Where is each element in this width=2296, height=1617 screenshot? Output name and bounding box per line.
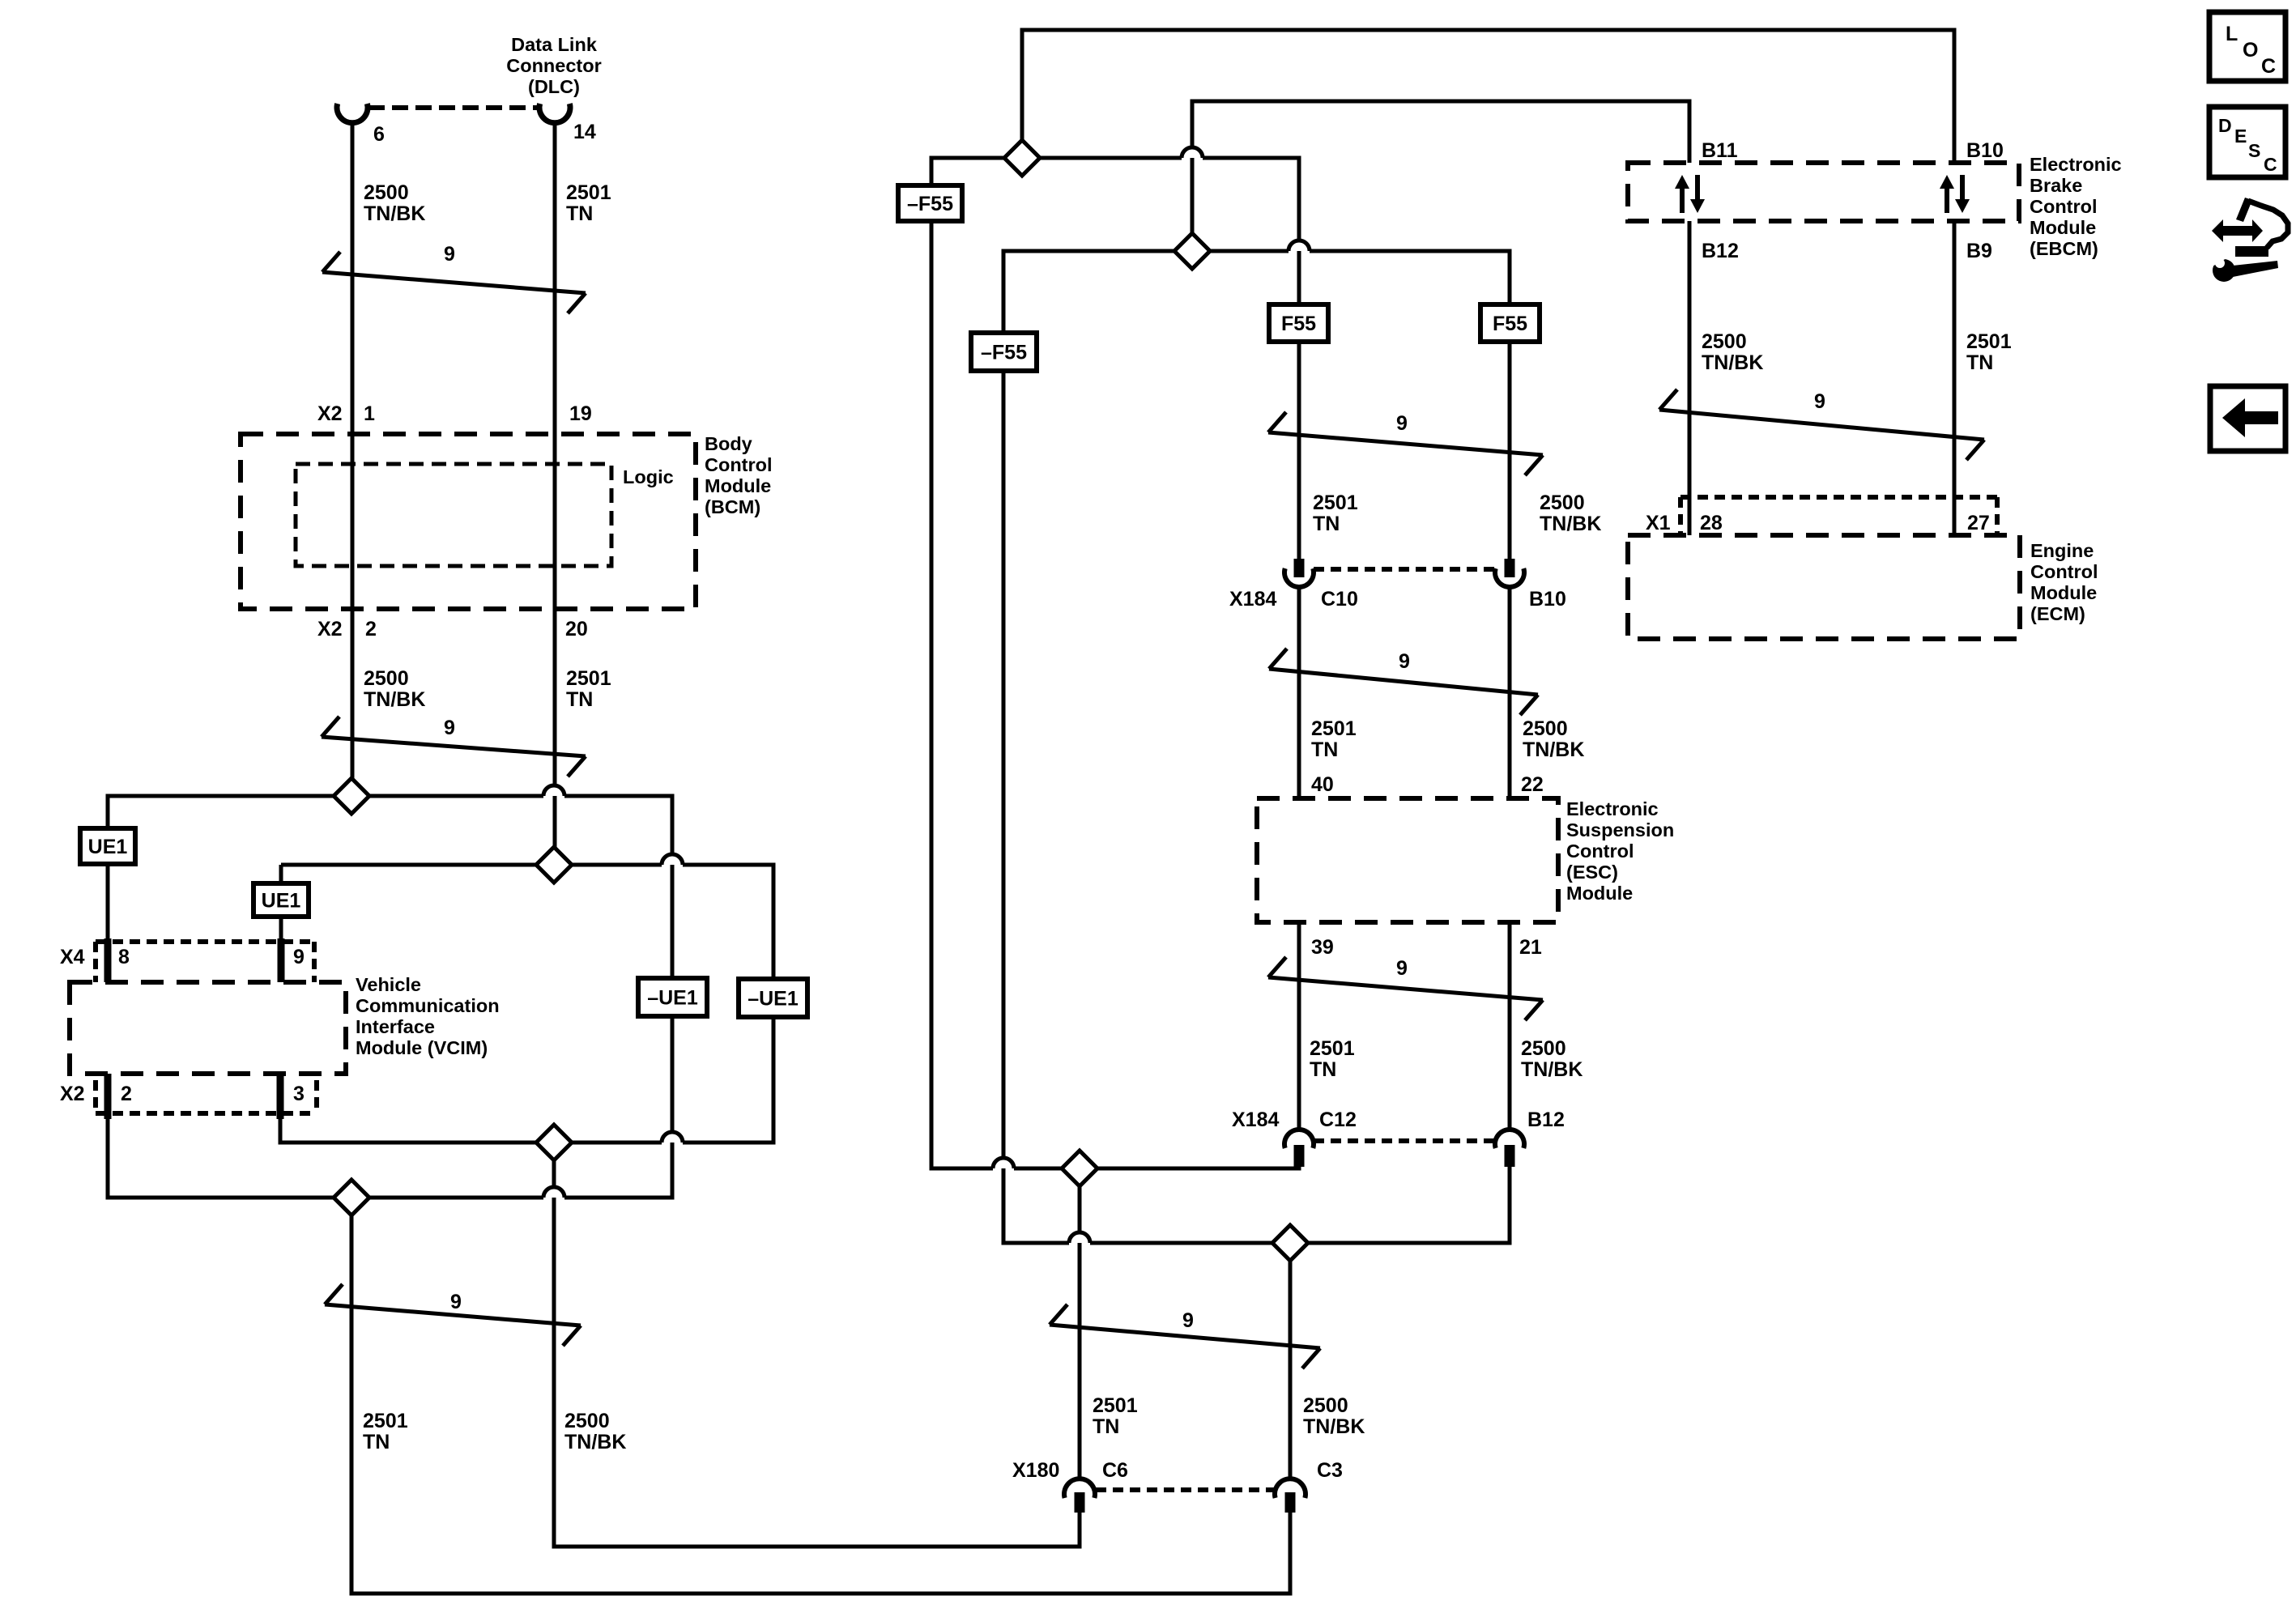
svg-text:2501: 2501 xyxy=(1310,1037,1355,1060)
svg-text:28: 28 xyxy=(1700,512,1723,534)
svg-text:TN: TN xyxy=(1966,351,1993,374)
svg-text:(ECM): (ECM) xyxy=(2030,603,2085,624)
svg-text:TN: TN xyxy=(363,1431,390,1453)
svg-text:9: 9 xyxy=(293,946,305,968)
svg-text:B12: B12 xyxy=(1702,240,1739,262)
svg-text:9: 9 xyxy=(1396,957,1408,980)
svg-text:–F55: –F55 xyxy=(981,342,1027,364)
svg-text:Connector: Connector xyxy=(506,55,602,76)
svg-text:TN/BK: TN/BK xyxy=(1702,351,1763,374)
svg-text:TN: TN xyxy=(566,202,593,225)
svg-text:14: 14 xyxy=(573,121,596,143)
svg-text:6: 6 xyxy=(373,123,385,146)
svg-text:(DLC): (DLC) xyxy=(528,76,580,97)
svg-text:9: 9 xyxy=(1182,1309,1194,1332)
svg-text:C: C xyxy=(2264,154,2277,175)
svg-text:2500: 2500 xyxy=(1303,1394,1348,1417)
svg-text:19: 19 xyxy=(569,402,592,425)
svg-text:X2: X2 xyxy=(317,402,343,425)
svg-text:TN: TN xyxy=(1093,1415,1119,1438)
svg-text:X180: X180 xyxy=(1012,1459,1059,1482)
svg-text:Module: Module xyxy=(2030,217,2096,238)
svg-text:21: 21 xyxy=(1519,936,1542,959)
svg-text:TN: TN xyxy=(1313,513,1340,535)
svg-text:2500: 2500 xyxy=(1540,491,1585,514)
svg-text:(ESC): (ESC) xyxy=(1566,862,1618,883)
svg-text:L: L xyxy=(2226,23,2238,45)
svg-text:9: 9 xyxy=(450,1291,462,1313)
svg-text:–F55: –F55 xyxy=(907,193,953,215)
svg-text:(EBCM): (EBCM) xyxy=(2030,238,2098,259)
svg-text:2501: 2501 xyxy=(1093,1394,1138,1417)
svg-text:–UE1: –UE1 xyxy=(748,988,799,1011)
svg-text:TN: TN xyxy=(566,688,593,711)
svg-text:3: 3 xyxy=(293,1083,305,1105)
svg-text:Suspension: Suspension xyxy=(1566,819,1674,840)
svg-text:B10: B10 xyxy=(1966,139,2004,162)
svg-text:C: C xyxy=(2261,55,2276,78)
svg-text:Module: Module xyxy=(705,475,771,496)
svg-text:Module: Module xyxy=(1566,883,1633,904)
svg-text:B10: B10 xyxy=(1529,588,1566,611)
svg-text:Control: Control xyxy=(2030,196,2098,217)
svg-text:TN/BK: TN/BK xyxy=(364,202,425,225)
svg-text:2500: 2500 xyxy=(364,181,409,204)
svg-text:Module (VCIM): Module (VCIM) xyxy=(356,1037,488,1058)
svg-text:Logic: Logic xyxy=(623,466,674,487)
svg-text:22: 22 xyxy=(1521,773,1544,796)
svg-text:2: 2 xyxy=(365,618,377,640)
svg-text:F55: F55 xyxy=(1493,313,1527,335)
svg-text:9: 9 xyxy=(1814,390,1825,413)
svg-text:Control: Control xyxy=(2030,561,2098,582)
svg-text:B9: B9 xyxy=(1966,240,1992,262)
svg-text:UE1: UE1 xyxy=(88,836,128,858)
svg-text:X2: X2 xyxy=(60,1083,85,1105)
svg-text:Interface: Interface xyxy=(356,1016,435,1037)
svg-text:2500: 2500 xyxy=(364,667,409,690)
svg-text:Body: Body xyxy=(705,433,752,454)
svg-text:C10: C10 xyxy=(1321,588,1358,611)
svg-text:TN/BK: TN/BK xyxy=(1303,1415,1365,1438)
svg-text:O: O xyxy=(2243,39,2258,62)
svg-text:1: 1 xyxy=(364,402,375,425)
svg-text:2501: 2501 xyxy=(566,181,611,204)
svg-text:E: E xyxy=(2234,126,2247,147)
svg-text:27: 27 xyxy=(1967,512,1990,534)
svg-text:C6: C6 xyxy=(1102,1459,1128,1482)
svg-text:X184: X184 xyxy=(1229,588,1276,611)
svg-text:Module: Module xyxy=(2030,582,2097,603)
svg-text:F55: F55 xyxy=(1281,313,1316,335)
svg-text:39: 39 xyxy=(1311,936,1334,959)
svg-text:X2: X2 xyxy=(317,618,343,640)
svg-text:40: 40 xyxy=(1311,773,1334,796)
svg-text:2500: 2500 xyxy=(1521,1037,1566,1060)
svg-text:2501: 2501 xyxy=(1966,330,2012,353)
svg-text:Vehicle: Vehicle xyxy=(356,974,421,995)
svg-text:X184: X184 xyxy=(1232,1108,1279,1131)
svg-text:TN: TN xyxy=(1311,738,1338,761)
svg-text:Electronic: Electronic xyxy=(1566,798,1659,819)
svg-text:(BCM): (BCM) xyxy=(705,496,760,517)
svg-text:2501: 2501 xyxy=(1313,491,1358,514)
svg-text:C3: C3 xyxy=(1317,1459,1343,1482)
svg-text:B12: B12 xyxy=(1527,1108,1565,1131)
svg-text:9: 9 xyxy=(1399,650,1410,673)
svg-text:9: 9 xyxy=(444,243,455,266)
svg-text:2501: 2501 xyxy=(1311,717,1357,740)
svg-text:TN/BK: TN/BK xyxy=(564,1431,626,1453)
svg-text:TN/BK: TN/BK xyxy=(364,688,425,711)
svg-text:D: D xyxy=(2218,115,2232,136)
svg-text:2: 2 xyxy=(121,1083,132,1105)
svg-text:UE1: UE1 xyxy=(262,890,301,913)
svg-text:Control: Control xyxy=(1566,840,1634,862)
svg-text:9: 9 xyxy=(444,717,455,739)
svg-text:9: 9 xyxy=(1396,412,1408,435)
svg-text:–UE1: –UE1 xyxy=(647,987,698,1010)
svg-text:X4: X4 xyxy=(60,946,85,968)
svg-text:8: 8 xyxy=(118,946,130,968)
svg-text:TN/BK: TN/BK xyxy=(1540,513,1601,535)
svg-text:2501: 2501 xyxy=(566,667,611,690)
svg-text:Electronic: Electronic xyxy=(2030,154,2122,175)
svg-text:X1: X1 xyxy=(1646,512,1671,534)
svg-text:2500: 2500 xyxy=(564,1410,610,1432)
svg-text:TN: TN xyxy=(1310,1058,1336,1081)
svg-text:2500: 2500 xyxy=(1523,717,1568,740)
svg-text:2501: 2501 xyxy=(363,1410,408,1432)
svg-text:S: S xyxy=(2248,140,2260,161)
svg-text:C12: C12 xyxy=(1319,1108,1357,1131)
svg-text:Control: Control xyxy=(705,454,773,475)
svg-text:20: 20 xyxy=(565,618,588,640)
svg-text:TN/BK: TN/BK xyxy=(1523,738,1584,761)
svg-text:Communication: Communication xyxy=(356,995,500,1016)
svg-text:B11: B11 xyxy=(1702,139,1738,162)
svg-text:Data Link: Data Link xyxy=(511,34,598,55)
svg-text:2500: 2500 xyxy=(1702,330,1747,353)
svg-text:Brake: Brake xyxy=(2030,175,2082,196)
svg-text:TN/BK: TN/BK xyxy=(1521,1058,1582,1081)
svg-text:Engine: Engine xyxy=(2030,540,2094,561)
